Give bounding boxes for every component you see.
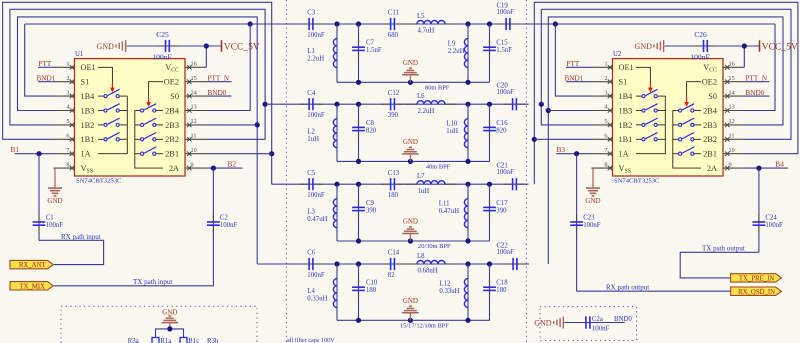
U1 pin 16 stub [185,66,207,68]
node B2 junction [211,166,216,171]
svg-text:C14: C14 [388,250,400,257]
svg-text:SN74CBT3253C: SN74CBT3253C [76,178,122,185]
wire net F2 U1-1B2 loop [10,9,265,139]
svg-text:2B2: 2B2 [703,135,717,144]
svg-text:0.68uH: 0.68uH [418,268,438,275]
wire U1 pin10 2B1 stub [207,153,272,155]
svg-text:C17: C17 [496,200,508,207]
svg-text:100nF: 100nF [307,272,325,279]
capacitor C19 (series output) [497,23,505,25]
capacitor C9 (shunt left) [358,184,360,241]
svg-text:3: 3 [604,89,607,96]
wire net F4 output to U2 1B3 loop [548,17,783,264]
svg-text:PTT_N: PTT_N [746,75,768,83]
svg-text:L8: L8 [417,253,425,260]
capacitor C11 (series mid) [382,23,390,25]
svg-text:4.7uH: 4.7uH [418,28,435,35]
U1 pin 5 stub [54,124,75,126]
node rail junction right inductor [465,318,470,323]
svg-text:BND1: BND1 [565,75,584,83]
svg-text:R1a: R1a [160,338,171,343]
inductor L10 (shunt right) [467,104,469,161]
inductor L8 (series) [405,263,417,265]
svg-text:1B1: 1B1 [619,135,633,144]
svg-text:GND: GND [534,319,552,328]
U2 pin 6 stub [592,138,613,140]
svg-text:100nF: 100nF [497,249,515,256]
node junction shunt inductor right [465,261,470,266]
wire net F3 U1-1B1 loop [3,2,272,184]
U2 pin 7 stub [592,153,613,155]
capacitor C2 [212,168,214,286]
capacitor C15 (shunt right) [489,24,491,82]
svg-text:1uH: 1uH [418,188,430,195]
U2 pin 15 stub [723,81,745,83]
wire net F2 to U2 2B2 loop [541,9,791,139]
svg-text:C24: C24 [765,215,777,222]
U2 bank 2 select arrow from OE2 [684,82,701,107]
svg-text:GND: GND [585,197,600,205]
U1 pin 10 stub [185,153,207,155]
capacitor C16 (shunt right) [489,104,491,161]
U1 pin 3 stub [54,95,75,97]
svg-text:B4: B4 [775,159,784,168]
svg-text:GND: GND [403,218,418,226]
svg-text:RX path input: RX path input [61,233,101,241]
svg-text:180: 180 [496,287,507,294]
ground of filter [408,159,413,164]
U2 bank 1 select arrow from OE1 [636,67,653,92]
U2 pin 12 stub [723,124,745,126]
svg-text:13: 13 [729,104,735,111]
svg-text:C16: C16 [496,120,508,127]
net label B2 at U1 pin 9 [207,167,243,169]
svg-text:7: 7 [604,147,607,154]
ground of filter [408,318,413,323]
ground in BND0 box [553,321,555,324]
svg-text:0.47uH: 0.47uH [439,208,459,215]
svg-text:PTT: PTT [567,60,580,68]
svg-text:12: 12 [729,118,735,125]
svg-text:S0: S0 [170,92,179,101]
svg-text:100nF: 100nF [307,112,325,119]
capacitor C22 (series output) [504,263,512,265]
node F4 junction to U2 1B3 [546,108,551,113]
svg-text:14: 14 [729,89,736,96]
svg-text:U2: U2 [613,51,622,58]
svg-text:2A: 2A [169,164,179,173]
svg-text:TX path input: TX path input [133,278,172,286]
op-amp mux IC U1 SN74CBT3253C body [75,59,186,176]
svg-text:OE2: OE2 [164,78,179,87]
U1 bank 1 select arrow from OE1 [98,67,115,92]
svg-text:BND0: BND0 [614,316,632,323]
U1 pin 4 stub [54,110,75,112]
svg-text:1: 1 [66,61,69,68]
U1 pin 15 stub [185,81,207,83]
wire net F1 to U2 2B4 loop [745,24,776,111]
U1 pin 13 stub [185,110,207,112]
node rail junction left cap [356,80,361,85]
U1 pin 2 stub [54,81,75,83]
svg-text:100nF: 100nF [152,52,171,61]
svg-text:C7: C7 [366,40,375,47]
dotted section divider right [525,0,527,343]
wire resistor tee [156,329,184,338]
svg-text:C4: C4 [307,90,316,97]
net label BND0 at U2 pin 14 [745,95,770,97]
inductor L5 (series) [405,23,417,25]
svg-text:GND: GND [403,59,418,67]
port TX_PRE_IN [731,274,782,282]
wire filter main line [250,23,522,25]
U1 switch bank 2 [135,104,163,168]
capacitor C13 (series mid) [382,183,390,185]
svg-text:1B4: 1B4 [619,92,634,101]
svg-text:L4: L4 [307,288,315,295]
svg-text:2B1: 2B1 [165,150,179,159]
svg-text:B3: B3 [557,145,566,154]
svg-text:390: 390 [366,207,377,214]
U2 pin 9 stub [723,167,745,169]
svg-text:B2: B2 [228,159,237,168]
svg-text:R3b: R3b [207,338,219,343]
node junction shunt cap left [356,21,361,26]
wire U2 pin3 1B4 riser [555,24,591,96]
svg-text:R3a: R3a [128,338,139,343]
svg-text:100nF: 100nF [307,32,325,39]
svg-text:L11: L11 [439,201,450,208]
svg-text:SN74CBT3253C: SN74CBT3253C [614,178,660,185]
inductor L1 (shunt left) [336,24,338,82]
svg-text:2B2: 2B2 [165,135,179,144]
svg-text:R1c: R1c [188,338,199,343]
svg-text:C23: C23 [583,215,595,222]
wire filter bottom rail [337,319,490,321]
svg-text:1B3: 1B3 [619,106,633,115]
svg-text:6: 6 [66,133,69,140]
svg-text:100nF: 100nF [583,222,601,229]
svg-text:OE1: OE1 [81,63,96,72]
svg-text:RX_ANT: RX_ANT [19,262,47,269]
node junction shunt cap right [487,102,492,107]
U1 pin 12 stub [185,124,207,126]
svg-text:C10: C10 [366,280,378,287]
dotted box attenuator section [61,306,257,343]
U2 pin 11 stub [723,138,745,140]
ground of filter [408,238,413,243]
node B3 junction [574,151,579,156]
svg-text:9: 9 [729,161,732,168]
svg-text:5: 5 [66,118,69,125]
net label B3 at U2 pin 7 [556,153,591,155]
U2 switch bank 1 [636,89,665,153]
svg-text:100nF: 100nF [46,222,64,229]
U2 pin 5 stub [592,124,613,126]
svg-text:11: 11 [729,133,735,140]
svg-text:40m BPF: 40m BPF [426,163,451,170]
wire net F1 output run [500,23,775,25]
node rail junction right inductor [465,159,470,164]
capacitor C18 (shunt right) [489,264,491,320]
svg-text:15: 15 [729,75,735,82]
capacitor C4 (series input) [300,103,308,105]
power symbol VCC_5V [759,40,761,52]
node Vcc junction [742,43,747,48]
svg-text:VCC_5V: VCC_5V [224,42,260,52]
svg-text:5: 5 [604,118,607,125]
node F3 junction to U2 1B1 [532,137,537,142]
wire TX path output [680,252,759,278]
svg-text:2A: 2A [707,164,717,173]
net label BND1 at U2 pin 2 [566,81,591,83]
svg-text:0.33uH: 0.33uH [439,288,459,295]
svg-text:GND: GND [635,42,653,51]
svg-text:16: 16 [191,61,197,68]
svg-text:L5: L5 [417,13,425,20]
net label PTT at U1 pin 1 [38,66,53,68]
wire filter main line [272,183,529,185]
net label BND0 at U1 pin 14 [207,95,232,97]
svg-text:13: 13 [191,104,197,111]
svg-text:GND: GND [97,42,115,51]
svg-text:10: 10 [191,147,197,154]
svg-text:B1: B1 [11,145,20,154]
wire filter bottom rail [337,240,490,242]
svg-text:1uH: 1uH [307,136,319,143]
svg-text:100nF: 100nF [497,169,515,176]
wire net F3 output to U2 1B1 loop [534,2,798,184]
svg-text:10: 10 [729,147,735,154]
svg-text:C15: C15 [496,40,508,47]
svg-text:TX path output: TX path output [702,245,745,253]
svg-text:BND0: BND0 [746,89,765,97]
inductor L2 (shunt left) [336,104,338,161]
node F1 junction to U2 1B4 [553,21,558,26]
wire net F4 U1-1B3 loop [18,17,258,264]
wire net F2 output to U2 1B2 [541,104,591,125]
svg-text:L10: L10 [446,121,458,128]
svg-text:C8: C8 [366,120,375,127]
wire U2 pin4 1B3 stub [548,110,591,112]
svg-text:2.2uH: 2.2uH [448,48,465,55]
ground at U2 VSS pin 8 [592,167,594,169]
wire net F1 top run to filter 1 input [25,23,300,25]
inductor L9 (shunt right) [467,24,469,82]
port RX_ANT [10,260,53,268]
svg-text:GND: GND [162,308,177,316]
svg-text:C18: C18 [496,280,508,287]
svg-text:GND: GND [47,197,62,205]
node junction shunt cap right [487,261,492,266]
svg-text:L6: L6 [417,93,425,100]
svg-text:1B3: 1B3 [81,106,95,115]
svg-text:TX_PRE_IN: TX_PRE_IN [739,276,775,283]
svg-text:2B3: 2B3 [703,121,717,130]
node rail junction left cap [356,238,361,243]
svg-text:L2: L2 [307,128,315,135]
capacitor C25 decoupling [156,45,164,47]
svg-text:U1: U1 [75,51,83,58]
capacitor C14 (series mid) [382,263,390,265]
wire filter bottom rail [337,160,490,162]
svg-text:100nF: 100nF [592,325,610,332]
svg-text:TX_MIX: TX_MIX [19,283,45,290]
svg-text:2.2uH: 2.2uH [307,56,324,63]
svg-text:L7: L7 [417,173,425,180]
net label BND1 at U1 pin 2 [38,81,53,83]
U1 pin 9 stub [185,167,207,169]
U2 pin 13 stub [723,110,745,112]
svg-text:1A: 1A [81,150,91,159]
svg-text:L3: L3 [307,208,315,215]
dotted section divider left [285,0,287,343]
node Vcc junction [204,43,209,48]
svg-text:8: 8 [66,161,69,168]
U1 bank 2 select arrow from OE2 [146,82,163,107]
power symbol VCC_5V [221,40,223,52]
svg-text:L12: L12 [439,280,451,287]
svg-text:6: 6 [604,133,607,140]
svg-text:1B4: 1B4 [81,92,96,101]
svg-text:80m BPF: 80m BPF [425,84,450,91]
svg-text:RX_QSD_IN: RX_QSD_IN [738,289,775,296]
dotted box BND0 decoupling section [540,307,637,341]
wire decoupling [665,45,745,47]
svg-text:PTT_N: PTT_N [208,75,230,83]
svg-text:BND0: BND0 [208,89,227,97]
svg-text:RX path output: RX path output [606,284,649,292]
svg-text:2B1: 2B1 [703,150,717,159]
U2 pin 1 stub [592,66,613,68]
svg-text:82: 82 [388,272,395,279]
svg-text:100nF: 100nF [497,9,515,16]
node junction shunt inductor [334,21,339,26]
svg-text:1B2: 1B2 [81,121,95,130]
node junction shunt cap left [356,261,361,266]
svg-text:C2a: C2a [592,316,603,323]
node rail junction left cap [356,159,361,164]
node junction shunt cap left [356,182,361,187]
node F3 junction to U1 2B1 [269,151,274,156]
svg-text:100nF: 100nF [690,52,709,61]
svg-text:C12: C12 [388,90,400,97]
svg-text:20/30m BPF: 20/30m BPF [418,243,451,250]
U1 pin 1 stub [54,66,75,68]
U1 switch bank 1 [98,89,127,153]
capacitor C8 (shunt left) [358,104,360,161]
svg-text:C3: C3 [307,10,316,17]
svg-text:C26: C26 [694,30,707,39]
port RX_QSD_IN [731,287,782,295]
capacitor C21 (series output) [504,183,512,185]
svg-text:16: 16 [729,61,735,68]
capacitor C1 [38,154,40,241]
svg-text:390: 390 [496,207,507,214]
wire BND0 decoupling [564,322,624,324]
wire U1 pin12 2B3 stub [207,124,258,126]
wire TX path input [54,285,214,287]
wire RX path output [577,290,731,292]
svg-text:100nF: 100nF [307,192,325,199]
node junction shunt inductor right [465,182,470,187]
inductor L3 (shunt left) [336,184,338,241]
capacitor C5 (series input) [300,183,308,185]
svg-text:C13: C13 [388,170,400,177]
svg-text:all filter caps 100V: all filter caps 100V [287,337,335,343]
node junction shunt cap left [356,102,361,107]
svg-text:C9: C9 [366,200,375,207]
svg-text:15/17/12/10m BPF: 15/17/12/10m BPF [400,322,449,329]
inductor L7 (series) [405,183,417,185]
inductor L12 (shunt right) [467,264,469,320]
wire decoupling [127,45,207,47]
U2 pin 10 stub [723,153,745,155]
svg-text:PTT: PTT [39,60,52,68]
net label B4 at U2 pin 9 [745,167,789,169]
svg-text:2.2uH: 2.2uH [418,108,435,115]
capacitor C26 decoupling [694,45,702,47]
svg-text:L9: L9 [448,40,456,47]
node rail junction right inductor [465,80,470,85]
wire U2 pin6 1B1 stub [534,138,591,140]
U1 pin 7 stub [54,153,75,155]
svg-text:1B2: 1B2 [619,121,633,130]
resistor R1a [152,338,159,343]
svg-text:100nF: 100nF [497,89,515,96]
U1 pin 8 stub [54,167,75,169]
capacitor C12 (series mid) [382,103,390,105]
svg-text:2B4: 2B4 [703,106,718,115]
wire filter bottom rail [337,81,490,83]
node junction shunt inductor [334,261,339,266]
ground at U1 VSS pin 8 [54,167,56,169]
svg-text:C5: C5 [307,170,316,177]
node junction shunt inductor [334,102,339,107]
svg-text:S1: S1 [81,78,90,87]
U1 pin 14 stub [185,95,207,97]
svg-text:1.5nF: 1.5nF [366,47,382,54]
svg-text:S1: S1 [619,78,628,87]
port TX_MIX [10,282,53,290]
wire Vcc riser [744,46,759,67]
svg-text:GND: GND [403,297,418,305]
capacitor C24 [758,168,760,252]
wire filter main line [265,103,528,105]
svg-text:OE1: OE1 [619,63,634,72]
svg-text:9: 9 [191,161,194,168]
wire Vcc riser [206,46,221,67]
node junction shunt cap right [487,21,492,26]
svg-text:VCC_5V: VCC_5V [762,42,798,52]
svg-text:14: 14 [191,89,198,96]
net label PTT_N at U1 pin 15 [207,81,232,83]
svg-text:1B1: 1B1 [81,135,95,144]
wire U1 pin13 2B4 riser [207,24,251,111]
inductor L4 (shunt left) [336,264,338,320]
capacitor C23 [576,154,578,292]
svg-text:L1: L1 [307,48,315,55]
node F2 output junction [539,102,544,107]
node F1 junction to U1 2B4 [248,21,253,26]
U1 pin 6 stub [54,138,75,140]
ground in attenuator box [169,323,171,329]
inductor L11 (shunt right) [467,184,469,241]
svg-text:C11: C11 [388,10,399,17]
node junction shunt inductor right [465,21,470,26]
op-amp mux IC U2 SN74CBT3253C body [613,59,724,176]
svg-text:2B4: 2B4 [165,106,180,115]
